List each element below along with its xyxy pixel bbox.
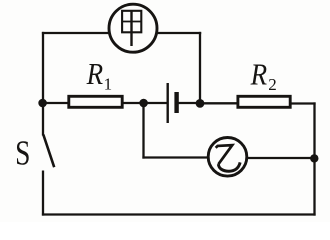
wire switch lower terminal vertical [42, 171, 44, 216]
wire main left node to R1 [43, 102, 69, 104]
wire node to R2 [200, 102, 239, 104]
battery: long plate (left) [166, 83, 168, 123]
wire right-of-top-loop vertical (corner down to battery node) [199, 32, 201, 104]
wire battery to node [179, 102, 201, 104]
ammeter (meter 甲) circle [109, 4, 157, 52]
resistor R2 body [238, 96, 290, 107]
meter 乙 circle [208, 138, 247, 177]
svg-text:R: R [250, 56, 267, 91]
meter 乙 glyph [216, 145, 240, 171]
meter 甲 glyph [122, 11, 141, 46]
wire left vertical (top corner to switch upper contact) [42, 32, 44, 136]
node left (switch/top branch) [38, 99, 47, 108]
node right of battery [196, 99, 205, 108]
wire branch vertical to meter B [142, 103, 144, 159]
svg-text:1: 1 [104, 75, 113, 94]
battery: short thick plate (right) [174, 92, 178, 113]
wire top-right horizontal [158, 32, 202, 34]
wire bottom [42, 213, 316, 215]
node right side (meter B to right vertical) [310, 154, 318, 162]
wire meter B to right node [247, 157, 315, 159]
wire R1 to battery [122, 102, 167, 104]
svg-text:2: 2 [268, 75, 277, 94]
svg-text:S: S [15, 133, 30, 172]
svg-text:R: R [86, 56, 103, 91]
wire branch horizontal to meter B [142, 156, 208, 158]
resistor R1 body [69, 96, 122, 107]
switch S blade (open) [43, 135, 54, 168]
wire right vertical [313, 102, 315, 215]
wire top-left horizontal [42, 32, 109, 34]
node between R1 and battery [139, 99, 148, 108]
wire R2 to right corner [290, 102, 316, 104]
